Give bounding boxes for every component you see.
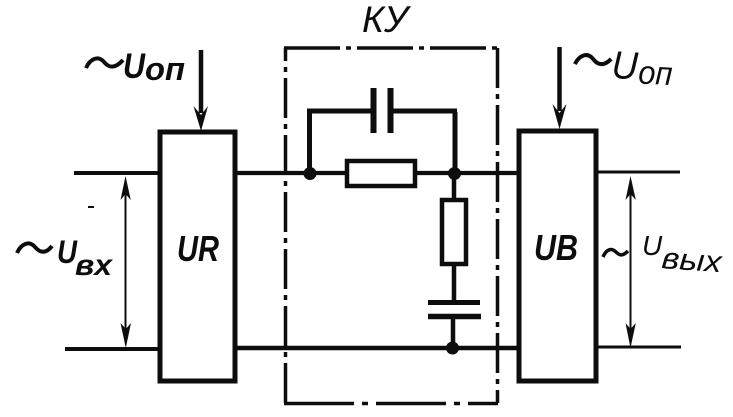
- node C (bottom junction): [446, 342, 459, 355]
- resistor R1 horizontal: [347, 161, 415, 186]
- svg-text:оп: оп: [145, 51, 185, 87]
- label ~Uvx: [17, 234, 113, 282]
- label ~Uop right: [574, 42, 674, 92]
- wire cap branch right vertical: [453, 112, 458, 172]
- arrow Uop into UB: [553, 47, 567, 129]
- dash-dot boundary KU box : right edge: [496, 48, 500, 403]
- arrow Uop into UR: [194, 50, 209, 131]
- wire top-left (input line to UR): [74, 171, 158, 175]
- capacitor C1 right plate: [388, 88, 394, 133]
- wire resistor R2 to capacitor C2: [452, 264, 457, 300]
- node A (left junction): [304, 167, 317, 180]
- wire top-middle-right (resistor R1 to UB): [414, 171, 518, 175]
- dimension arrow Uvyx (right, double-headed): [626, 176, 636, 348]
- dash-dot boundary KU box : bottom edge: [284, 402, 498, 406]
- svg-text:оп: оп: [638, 53, 674, 92]
- label ~ Uvyx: [603, 230, 724, 279]
- wire capacitor C2 to bottom rail: [451, 317, 456, 348]
- wire cap branch left horizontal: [307, 109, 371, 114]
- capacitor C2 top plate: [428, 300, 480, 305]
- wire node B to resistor R2: [452, 173, 457, 201]
- svg-text:UR: UR: [177, 228, 219, 269]
- capacitor C2 bottom plate: [428, 314, 481, 320]
- dash-dot boundary KU box : left edge: [284, 48, 288, 403]
- block UB: [519, 131, 596, 381]
- node B (right junction): [448, 167, 461, 180]
- svg-text:U: U: [642, 230, 663, 261]
- dash-dot boundary KU box : top edge: [284, 46, 498, 50]
- svg-text:UВ: UВ: [534, 227, 578, 268]
- wire top-right (UB output): [598, 171, 680, 174]
- dimension arrow Uvx (left, double-headed): [121, 176, 132, 348]
- wire bottom-right (UB output): [598, 346, 681, 349]
- resistor R2 vertical: [442, 200, 466, 264]
- wire cap branch left vertical: [307, 112, 312, 172]
- wire bottom-left (input line to UR): [65, 347, 158, 351]
- svg-text:вх: вх: [75, 249, 113, 282]
- label ~Uop left: [86, 47, 185, 87]
- block UR: [160, 132, 235, 381]
- stray scan dot: [88, 206, 94, 208]
- svg-text:КУ: КУ: [362, 0, 411, 40]
- capacitor C1 left plate: [371, 88, 377, 133]
- svg-text:вых: вых: [661, 242, 724, 279]
- wire top-middle (UR to node A): [237, 171, 348, 175]
- svg-text:U: U: [611, 44, 640, 88]
- wire cap branch right horizontal: [393, 109, 457, 114]
- svg-text:U: U: [123, 47, 146, 86]
- wire bottom-middle (UR to UB): [237, 346, 518, 350]
